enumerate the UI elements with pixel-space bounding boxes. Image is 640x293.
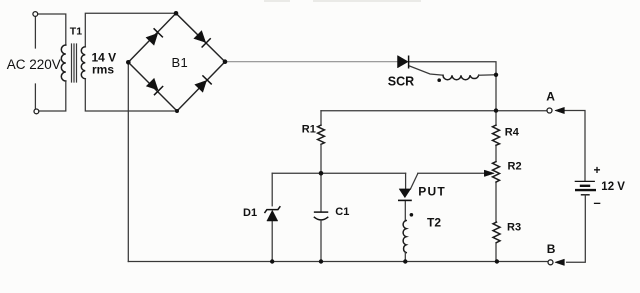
- wire gate to R2 wiper: [418, 172, 485, 174]
- wire battery right side top: [564, 111, 585, 182]
- wire bridge diamond edges: [128, 13, 225, 111]
- battery plate long thick: [576, 189, 595, 191]
- transformer T1 secondary coil: [81, 47, 85, 79]
- svg-text:B: B: [547, 242, 556, 256]
- wire D1 top lead: [271, 173, 273, 206]
- wire bottom rail: [128, 261, 548, 263]
- node bridge left: [126, 60, 131, 65]
- wire SCR cathode to right vertical: [409, 62, 496, 111]
- svg-text:B1: B1: [172, 55, 189, 70]
- wire T2 bottom lead: [404, 253, 406, 262]
- faint scan artifact top-left: [264, 0, 290, 2]
- wire C1 top lead: [320, 173, 322, 212]
- resistor R3: [493, 222, 500, 243]
- capacitor C1 top plate: [315, 211, 328, 213]
- svg-text:T1: T1: [70, 25, 82, 37]
- zener D1 triangle: [267, 210, 278, 221]
- node bridge top: [174, 11, 179, 16]
- wire AC source left vertical: [34, 16, 36, 109]
- svg-text:–: –: [594, 195, 601, 210]
- wire coil to right vertical: [479, 74, 496, 76]
- diode B1 lower-right: [194, 75, 212, 93]
- svg-text:12 V: 12 V: [601, 181, 625, 193]
- wire bridge left node down to bottom rail: [127, 62, 129, 261]
- terminal B: [548, 260, 553, 265]
- svg-text:T2: T2: [427, 216, 441, 230]
- arrow at terminal A: [555, 107, 565, 113]
- node coil junction right: [494, 73, 498, 77]
- wire SCR gate to coil: [410, 66, 444, 75]
- wire PUT gate: [411, 174, 418, 189]
- svg-text:+: +: [594, 163, 601, 177]
- node coil phasing dot SCR: [437, 78, 441, 82]
- wire secondary bottom to bridge: [85, 79, 177, 111]
- battery plate long thin: [575, 180, 594, 182]
- capacitor C1 bottom plate: [314, 217, 327, 220]
- wire AC bottom: [39, 81, 66, 111]
- svg-text:R4: R4: [505, 126, 520, 138]
- diode B1 upper-left: [145, 28, 163, 46]
- svg-text:rms: rms: [92, 63, 114, 77]
- node A-row junction: [494, 108, 498, 112]
- wire secondary top to bridge: [85, 13, 176, 46]
- resistor R4: [493, 125, 500, 145]
- svg-text:R2: R2: [508, 161, 522, 173]
- node bridge bottom: [175, 109, 179, 113]
- svg-text:D1: D1: [243, 207, 257, 219]
- wire battery bottom to B row: [567, 195, 586, 262]
- diode B1 upper-right: [193, 30, 211, 48]
- wire PUT cathode lead: [404, 200, 406, 220]
- battery plate short bottom: [582, 194, 590, 196]
- node R1 C1 junction: [319, 171, 324, 176]
- terminal A: [547, 108, 552, 113]
- wire middle rail: [272, 172, 405, 174]
- faint scan artifact top-right: [313, 0, 421, 2]
- node bridge right: [223, 59, 228, 64]
- node C1 bottom: [319, 259, 323, 263]
- wire R1 top lead: [320, 111, 322, 125]
- svg-text:R3: R3: [507, 222, 521, 234]
- wire AC top: [38, 14, 66, 45]
- potentiometer R2 element: [493, 162, 500, 183]
- inductor SCR gate coil: [443, 75, 479, 80]
- svg-text:R1: R1: [302, 124, 316, 136]
- SCR anode-cathode: [398, 56, 409, 69]
- diode B1 lower-left: [146, 78, 164, 96]
- node T2 bottom: [403, 259, 407, 263]
- arrow at terminal B: [555, 259, 565, 265]
- node D1 bottom: [270, 259, 274, 263]
- svg-text:SCR: SCR: [388, 74, 414, 88]
- svg-text:AC 220V: AC 220V: [7, 57, 61, 72]
- battery plate short thick: [581, 185, 589, 187]
- node T2 phasing dot: [410, 213, 414, 217]
- wire A row: [321, 110, 547, 112]
- transformer T1 core: [72, 44, 77, 82]
- resistor R1: [318, 125, 325, 144]
- svg-text:A: A: [546, 90, 555, 104]
- node R3 bottom: [495, 259, 499, 263]
- wire R1 bottom lead: [320, 144, 322, 173]
- svg-text:C1: C1: [335, 206, 349, 218]
- terminal AC top: [33, 12, 38, 17]
- transistor PUT triangle and bar: [398, 189, 412, 201]
- wire C1 bottom lead: [320, 220, 322, 261]
- potentiometer R2 wiper arrow: [484, 170, 494, 176]
- zener D1 bar: [265, 207, 280, 213]
- wire D1 bottom lead: [271, 221, 273, 262]
- wire PUT anode lead: [405, 173, 407, 189]
- inductor T2 coil: [403, 221, 406, 253]
- wire bridge output to SCR: [225, 61, 398, 63]
- svg-text:PUT: PUT: [418, 185, 446, 199]
- terminal AC bottom: [34, 109, 39, 114]
- transformer T1 primary coil: [61, 45, 66, 81]
- wire right vertical resistor chain: [495, 111, 497, 262]
